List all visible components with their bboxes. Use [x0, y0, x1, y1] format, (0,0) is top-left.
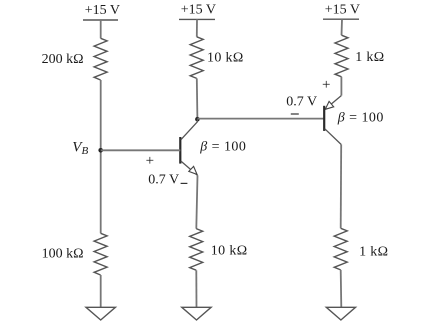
resistor R5 1k zigzag: [335, 35, 348, 77]
svg-text:10 kΩ: 10 kΩ: [207, 51, 244, 66]
resistor R6 1k zigzag: [334, 228, 347, 270]
svg-text:β = 100: β = 100: [337, 110, 384, 125]
svg-text:+15 V: +15 V: [181, 3, 216, 18]
Q2 collector lead: [325, 129, 342, 145]
resistor R2 100k zigzag: [94, 233, 107, 275]
wire R3 to collector node: [196, 78, 199, 118]
ground (left): [86, 307, 115, 320]
resistor R1 200k zigzag: [94, 38, 107, 80]
resistor R3 10k zigzag: [190, 37, 203, 79]
svg-text:1 kΩ: 1 kΩ: [359, 244, 388, 259]
wire R5 to Q2 emitter: [340, 77, 342, 96]
transistor Q2 base bar: [323, 106, 325, 131]
minus sign Q1: [181, 182, 188, 184]
svg-text:0.7 V: 0.7 V: [148, 173, 179, 188]
supply rail bar (middle): [179, 18, 215, 20]
transistor Q1 base bar: [179, 137, 181, 164]
wire rail to R1: [100, 20, 102, 38]
svg-text:+15 V: +15 V: [325, 3, 360, 18]
svg-text:β = 100: β = 100: [199, 140, 246, 155]
wire R2 to ground: [100, 275, 102, 307]
Q1 collector lead: [181, 119, 198, 140]
wire R6 to ground: [340, 270, 343, 307]
svg-text:+15 V: +15 V: [85, 3, 120, 18]
svg-text:+: +: [322, 77, 330, 93]
supply rail bar (left): [83, 19, 118, 21]
wire rail to R5: [341, 19, 344, 35]
Q1 emitter lead: [181, 161, 198, 175]
node collector dot: [195, 117, 200, 122]
wire R1 to R2: [100, 80, 102, 233]
supply rail bar (right): [323, 18, 359, 20]
ground (middle): [182, 307, 211, 320]
svg-text:100 kΩ: 100 kΩ: [42, 246, 84, 261]
svg-text:1 kΩ: 1 kΩ: [355, 50, 384, 65]
Q2 emitter lead: [325, 96, 341, 110]
Q2 emitter arrow: [325, 101, 333, 109]
Q1 emitter arrow: [189, 166, 197, 174]
wire base VB to Q1: [101, 149, 181, 151]
resistor R4 10k zigzag: [190, 229, 203, 271]
node VB dot: [98, 148, 103, 153]
wire collector node to Q2 base: [197, 118, 324, 120]
svg-text:10 kΩ: 10 kΩ: [211, 244, 248, 259]
svg-text:+: +: [146, 153, 154, 169]
ground (right): [326, 307, 355, 320]
svg-text:200 kΩ: 200 kΩ: [42, 52, 84, 67]
svg-text:0.7 V: 0.7 V: [286, 94, 317, 109]
wire R4 to ground: [195, 270, 197, 307]
wire Q2 collector to R6: [340, 145, 343, 229]
wire rail to R3: [196, 19, 198, 36]
minus sign Q2: [291, 113, 299, 115]
wire Q1 emitter to R4: [196, 175, 197, 228]
